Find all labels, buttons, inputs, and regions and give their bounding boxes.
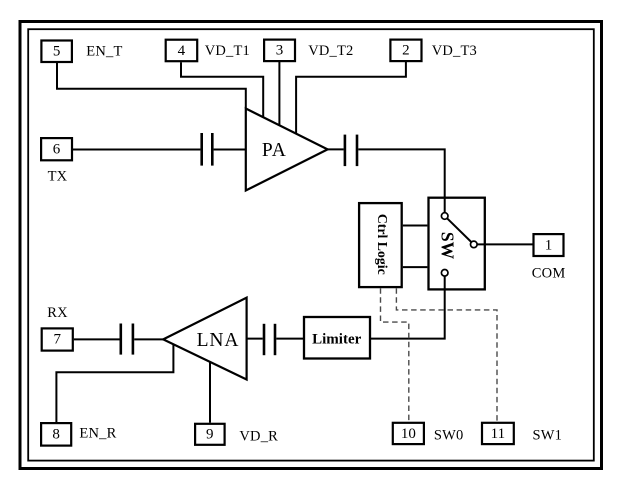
svg-text:VD_T2: VD_T2 — [308, 43, 353, 59]
svg-text:TX: TX — [48, 169, 68, 185]
svg-text:VD_R: VD_R — [239, 429, 278, 445]
svg-text:11: 11 — [491, 426, 505, 442]
svg-text:3: 3 — [276, 43, 284, 59]
svg-text:Limiter: Limiter — [312, 332, 361, 348]
svg-text:7: 7 — [53, 332, 61, 348]
svg-text:10: 10 — [401, 426, 416, 442]
svg-text:5: 5 — [53, 43, 61, 59]
svg-text:VD_T3: VD_T3 — [432, 43, 477, 59]
svg-text:COM: COM — [532, 266, 566, 282]
svg-text:Ctrl Logic: Ctrl Logic — [375, 214, 390, 275]
svg-text:VD_T1: VD_T1 — [205, 43, 250, 59]
svg-text:4: 4 — [178, 43, 186, 59]
svg-text:8: 8 — [52, 427, 60, 443]
svg-text:PA: PA — [262, 140, 287, 161]
svg-text:9: 9 — [206, 427, 214, 443]
svg-text:EN_T: EN_T — [86, 43, 122, 59]
svg-text:SW0: SW0 — [434, 428, 464, 444]
svg-text:1: 1 — [545, 237, 553, 253]
svg-text:SW: SW — [438, 232, 458, 260]
svg-text:EN_R: EN_R — [79, 425, 116, 441]
svg-text:RX: RX — [47, 305, 68, 321]
svg-text:6: 6 — [53, 141, 61, 157]
svg-text:SW1: SW1 — [533, 428, 563, 444]
svg-text:2: 2 — [402, 43, 410, 59]
svg-text:LNA: LNA — [197, 330, 240, 351]
